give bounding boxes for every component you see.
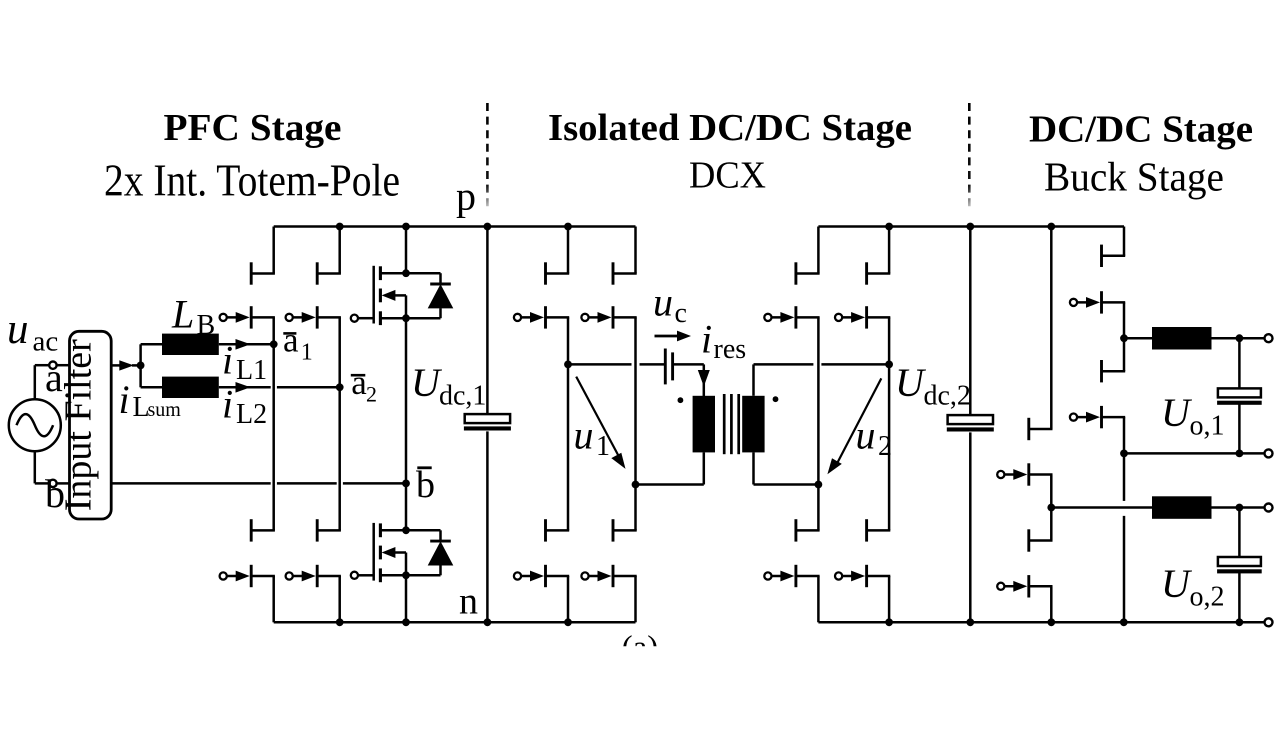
svg-text:o,2: o,2 — [1190, 582, 1225, 613]
svg-text:U: U — [1161, 561, 1193, 606]
node n rail leg2 — [336, 618, 344, 626]
node buck output1 switch node — [1120, 334, 1128, 342]
node p rail U_dc2 — [966, 223, 974, 231]
svg-text:sum: sum — [148, 399, 182, 421]
svg-text:2x Int. Totem-Pole: 2x Int. Totem-Pole — [104, 156, 400, 206]
label u_ac — [7, 306, 58, 358]
caption (a) clipped — [622, 630, 659, 666]
label a1 with overbar — [283, 321, 313, 366]
transformer secondary winding — [742, 396, 764, 453]
wire resonant cap to transformer primary with i_res arrow — [674, 364, 710, 396]
node output1 positive — [1236, 334, 1244, 342]
arrow u_2 voltage — [827, 378, 881, 474]
svg-text:2: 2 — [366, 382, 377, 407]
node n rail mosfet leg — [402, 618, 410, 626]
wire inductor L2 to output2 — [1212, 506, 1265, 509]
wire node N2 to inductor L2 (passes under legA) — [1051, 506, 1152, 509]
transformer polarity dot secondary — [773, 396, 779, 402]
node p rail mosfet leg — [402, 223, 410, 231]
wire T12 source to n rail — [888, 576, 891, 622]
wire inductor L1 to output1 — [1212, 337, 1265, 340]
capacitor C_o2 — [1217, 557, 1262, 573]
mosfet T9 DCX secondary leg1 high — [764, 262, 819, 328]
svg-text:p: p — [456, 174, 476, 219]
wire node b line from filter (hops legs 1 and 2) — [111, 482, 406, 485]
label u_1 — [574, 413, 611, 463]
mosfet T2 PFC leg1 low-side — [220, 519, 275, 587]
svg-text:L2: L2 — [236, 399, 267, 430]
inductor L_B1 — [162, 334, 219, 355]
svg-text:dc,1: dc,1 — [439, 381, 486, 412]
svg-text:PFC Stage: PFC Stage — [164, 107, 342, 149]
label i_res — [701, 317, 746, 366]
capacitor C_dc2 — [947, 415, 994, 431]
mosfet T1 PFC leg1 high-side — [220, 262, 275, 328]
svg-text:1: 1 — [596, 431, 610, 462]
label u_2 — [856, 413, 893, 463]
wire T1 source to node a1 — [272, 317, 275, 344]
arrow u_c reference — [655, 331, 692, 342]
output terminal negative U_o2 — [1265, 618, 1273, 626]
svg-text:u: u — [653, 280, 673, 325]
p rail secondary side — [818, 225, 1124, 228]
wire PFC leg1 drain — [272, 227, 275, 274]
node output2 positive — [1236, 504, 1244, 512]
label i_L1 — [222, 338, 267, 387]
svg-text:u: u — [7, 306, 29, 353]
node a terminal — [49, 362, 56, 369]
wire T16 source to n rail — [1050, 586, 1053, 622]
wire cap1 to output1 return — [1238, 404, 1241, 453]
wire terminal a to input filter — [57, 364, 70, 367]
arrow u_1 voltage — [576, 377, 625, 469]
wire T10 source to n rail — [817, 576, 820, 622]
node p rail DCX leg1 — [564, 223, 572, 231]
wire DCX leg P2 drain — [634, 227, 637, 274]
capacitor C_res resonant — [665, 349, 672, 385]
wire U_dc1 cap branch top — [486, 227, 489, 415]
node p rail U_dc1 — [484, 223, 492, 231]
wire T14 source to output1 return node — [1123, 417, 1126, 453]
wire legA return node to n rail (hops output2 line) — [1123, 453, 1126, 622]
svg-text:u: u — [856, 413, 876, 458]
transformer primary winding — [693, 396, 715, 453]
wire T5 source to node u1+ — [567, 317, 570, 364]
wire buck legA drain — [1123, 227, 1126, 256]
input filter block — [57, 331, 111, 519]
svg-text:DCX: DCX — [689, 155, 766, 197]
svg-text:U: U — [895, 360, 927, 405]
wire T2 source to n rail — [272, 576, 275, 622]
label L_B — [171, 292, 215, 342]
svg-text:res: res — [714, 334, 747, 365]
wire U_dc2 cap branch top — [969, 227, 972, 416]
node DCX secondary leg2 midpoint — [885, 361, 893, 369]
wire ac source to terminal b — [35, 451, 49, 483]
wire T3 source to node a2 — [338, 317, 341, 387]
node n rail U_dc1 — [484, 618, 492, 626]
node DCX primary leg1 midpoint — [564, 361, 572, 369]
wire output1 return line — [1124, 452, 1265, 455]
transformer polarity dot primary — [678, 397, 684, 403]
node a1 — [270, 340, 278, 348]
label a2 with overbar — [351, 363, 377, 407]
label U_o,2 — [1161, 561, 1225, 613]
mosfet T13 buck legA high — [1070, 245, 1125, 314]
label U_dc,2 — [895, 360, 971, 412]
wire T9 source to secondary bottom node (crosses secondary top link) — [817, 317, 820, 484]
wire i_L1 with arrow to node a1 — [219, 339, 274, 350]
wire transformer secondary bottom to leg S1 — [754, 452, 819, 484]
wire node N2 down to low switch — [1050, 508, 1053, 541]
wire DCX leg S2 drain — [888, 227, 891, 274]
node n rail DCX sec leg2 — [885, 618, 893, 626]
label U_dc,1 — [411, 360, 486, 412]
p rail primary side — [274, 225, 636, 228]
svg-text:1: 1 — [301, 340, 313, 366]
mosfet T6 DCX primary leg1 low — [514, 519, 569, 587]
inductor L_buck2 — [1152, 496, 1212, 519]
label U_o,1 — [1161, 390, 1225, 442]
node p rail leg2 — [336, 223, 344, 231]
mosfet T3 PFC leg2 high-side — [286, 262, 341, 328]
svg-text:b: b — [416, 464, 435, 506]
wire buck legB drain — [1050, 227, 1053, 430]
wire Q1 source to node b — [405, 318, 408, 483]
wire U_dc1 cap branch bottom — [486, 431, 489, 622]
svg-text:ac: ac — [33, 326, 59, 358]
label i_Lsum — [119, 377, 182, 423]
svg-text:u: u — [574, 413, 594, 458]
node p rail DCX sec leg2 — [885, 223, 893, 231]
wire U_dc2 cap branch bottom — [969, 432, 972, 622]
wire leg2 node a2 down to low-side — [338, 387, 341, 530]
node output1 return cap — [1236, 450, 1244, 458]
wire DCX leg S1 drain — [817, 227, 820, 274]
wire leg P1 mid to resonant capacitor (hops leg P2) — [568, 363, 664, 366]
wire PFC leg2 drain — [338, 227, 341, 274]
wire T8 source to n rail — [634, 576, 637, 622]
svg-text:dc,2: dc,2 — [924, 381, 971, 412]
mosfet T5 DCX primary leg1 high — [514, 262, 569, 328]
output terminal positive U_o1 — [1265, 334, 1273, 342]
wire junction to inductors — [141, 344, 162, 387]
mosfet T14 buck legA mid — [1070, 360, 1125, 428]
label i_L2 — [222, 382, 267, 431]
svg-text:Buck Stage: Buck Stage — [1044, 154, 1224, 200]
mosfet T12 DCX secondary leg2 low — [835, 519, 890, 587]
node n rail U_dc2 — [966, 618, 974, 626]
node n rail buck legB — [1047, 618, 1055, 626]
svg-text:DC/DC Stage: DC/DC Stage — [1029, 109, 1253, 151]
wire node N1 to inductor L1 — [1124, 337, 1152, 340]
svg-text:n: n — [459, 581, 478, 623]
mosfet Q1 with body diode (high side) — [351, 266, 454, 325]
svg-text:B: B — [197, 310, 216, 341]
svg-text:L1: L1 — [236, 355, 267, 386]
output terminal negative U_o1 — [1265, 449, 1273, 457]
wire DCX leg S1 mid down to low switch — [817, 485, 820, 531]
mosfet Q2 with body diode (low side) — [351, 523, 454, 582]
output terminal positive U_o2 — [1265, 504, 1273, 512]
wire DCX leg S2 mid down to low switch — [888, 364, 891, 530]
wire output2 to cap2 — [1238, 508, 1241, 558]
svg-text:i: i — [701, 317, 712, 362]
wire DCX leg P1 mid down to low switch — [567, 364, 570, 530]
mosfet T11 DCX secondary leg2 high — [835, 262, 890, 328]
svg-text:c: c — [675, 298, 687, 329]
node b on mosfet leg — [402, 480, 410, 488]
node a2 — [336, 383, 344, 391]
mosfet T10 DCX secondary leg1 low — [764, 519, 819, 587]
node buck output1 return — [1120, 450, 1128, 458]
arrow i_Lsum from filter — [111, 360, 140, 370]
node DCX primary leg2 midpoint — [632, 481, 640, 489]
dashed separator line right — [968, 103, 971, 208]
mosfet T7 DCX primary leg2 high — [581, 262, 636, 328]
wire ac source to terminal a — [35, 365, 49, 399]
dashed separator line left — [486, 103, 489, 208]
wire cap2 to n rail — [1238, 573, 1241, 622]
node n rail DCX leg1 — [564, 618, 572, 626]
wire Q1 drain from p rail — [405, 227, 408, 274]
mosfet T16 buck legB low — [997, 529, 1052, 597]
svg-text:a: a — [283, 321, 299, 360]
wire terminal b to input filter — [57, 482, 70, 485]
node p rail buck legB — [1047, 223, 1055, 231]
wire T4 source to n rail — [338, 576, 341, 622]
wire T15 source to node N2 — [1050, 475, 1053, 508]
node buck output2 switch node — [1047, 504, 1055, 512]
svg-text:Isolated DC/DC Stage: Isolated DC/DC Stage — [548, 107, 912, 149]
wire T13 source to node N1 — [1123, 302, 1126, 338]
svg-text:o,1: o,1 — [1190, 411, 1225, 442]
wire node N1 down to mid switch — [1123, 338, 1126, 371]
wire DCX leg P2 mid down to low switch — [634, 485, 637, 531]
transformer core — [724, 394, 739, 454]
inductor L_B2 — [162, 377, 219, 398]
ac source V1 — [9, 399, 61, 451]
wire transformer secondary top (hops leg S1) — [754, 364, 890, 395]
label u_c — [653, 280, 687, 330]
node n rail buck legA — [1120, 618, 1128, 626]
wire transformer primary bottom to leg P2 — [636, 452, 704, 484]
wire DCX leg P1 drain — [567, 227, 570, 274]
label b with overbar — [416, 464, 435, 506]
wire i_L2 with arrow to node a2 (hops leg 1) — [219, 382, 340, 393]
mosfet T4 PFC leg2 low-side — [286, 519, 341, 587]
wire T7 source to transformer bottom node (crosses resonant link) — [634, 317, 637, 484]
node n rail output cap2 — [1236, 618, 1244, 626]
svg-text:U: U — [1161, 390, 1193, 435]
wire leg1 node a1 down to low-side — [272, 344, 275, 530]
svg-text:L: L — [171, 292, 194, 337]
wire T11 source to node — [888, 317, 891, 364]
node b terminal — [49, 480, 56, 487]
node i_Lsum junction — [137, 362, 145, 370]
svg-text:i: i — [222, 338, 233, 383]
svg-text:i: i — [222, 382, 233, 427]
n rail primary side — [274, 621, 636, 624]
mosfet T15 buck legB high — [997, 418, 1052, 486]
capacitor C_o1 — [1217, 388, 1262, 404]
capacitor C_dc1 — [464, 414, 511, 430]
inductor L_buck1 — [1152, 327, 1212, 350]
svg-text:Input Filter: Input Filter — [57, 339, 99, 511]
node DCX secondary leg1 midpoint — [815, 481, 823, 489]
svg-text:i: i — [119, 377, 130, 422]
mosfet T8 DCX primary leg2 low — [581, 519, 636, 587]
wire T6 source to n rail — [567, 576, 570, 622]
svg-text:a: a — [351, 363, 367, 402]
wire output1 to cap1 — [1238, 338, 1241, 389]
wire Q2 source to n rail — [405, 575, 408, 622]
n rail secondary side — [818, 621, 1264, 624]
wire node b to Q2 drain — [405, 483, 408, 530]
